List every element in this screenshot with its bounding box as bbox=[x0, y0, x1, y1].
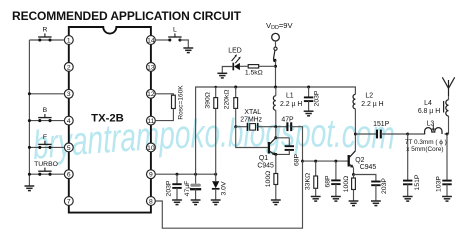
inductor L3 tuned bbox=[425, 125, 442, 134]
label Rosc=160K bbox=[177, 85, 184, 120]
svg-text:68P: 68P bbox=[294, 153, 301, 166]
ground G3 under 203P bbox=[172, 200, 182, 205]
svg-text:6.8 µ H: 6.8 µ H bbox=[418, 108, 440, 115]
svg-text:390Ω: 390Ω bbox=[205, 92, 212, 108]
svg-text:1.5kΩ: 1.5kΩ bbox=[245, 70, 263, 77]
label 103P bbox=[436, 176, 443, 192]
wire pin3 to bus bbox=[28, 92, 65, 95]
capacitor C 47uF electrolytic bbox=[190, 174, 201, 199]
label 1.5kOhm bbox=[245, 70, 263, 77]
inductor L1 bbox=[273, 87, 275, 127]
wire pin8 net bbox=[303, 160, 349, 162]
resistor R 100 Ohm Q1 bbox=[274, 154, 278, 199]
node junction pin8 net left bbox=[301, 160, 304, 163]
svg-text:12: 12 bbox=[147, 91, 155, 98]
label 203P emitter bbox=[381, 178, 388, 194]
resistor Rosc 160K bbox=[172, 95, 176, 108]
node junction bus-390 bbox=[215, 86, 217, 88]
terminal VDD bbox=[272, 33, 280, 41]
svg-text:203P: 203P bbox=[166, 180, 173, 196]
node junction rail-zener bbox=[214, 173, 217, 176]
resistor R 220kOhm bbox=[234, 87, 238, 127]
antenna ANT bbox=[442, 77, 454, 96]
wire osc node down to Q1 base bbox=[236, 127, 268, 148]
svg-text:1: 1 bbox=[67, 37, 71, 44]
label 220kOhm bbox=[223, 90, 230, 110]
svg-text:C945: C945 bbox=[257, 163, 274, 170]
label L3 winding spec line2 bbox=[406, 146, 443, 153]
capacitor C 203P (rail) bbox=[172, 174, 181, 199]
label Q2 C945 bbox=[360, 164, 377, 171]
IC label TX-2B bbox=[91, 113, 124, 125]
IC pin 4 bbox=[64, 116, 73, 125]
IC pin 12 bbox=[147, 89, 156, 98]
svg-text:2.2 µ H: 2.2 µ H bbox=[361, 101, 383, 108]
IC pin 14 bbox=[147, 36, 156, 45]
svg-text:VDD=9V: VDD=9V bbox=[266, 21, 294, 31]
label 47P bbox=[281, 117, 294, 124]
capacitor C 203P (bus) bbox=[304, 87, 313, 111]
ground G12 under 203P emitter bbox=[371, 201, 381, 206]
wire left common bus bbox=[28, 40, 30, 186]
wire LED cathode to ground bbox=[222, 67, 233, 73]
wire switch L to ground bbox=[180, 40, 188, 48]
wire 9V top bus bbox=[196, 87, 356, 174]
ground G6 LED bbox=[217, 73, 227, 78]
label L1 bbox=[286, 92, 294, 99]
wire Rosc to pin11 bbox=[155, 109, 173, 121]
svg-text:9: 9 bbox=[149, 172, 153, 179]
label Q2 bbox=[355, 157, 364, 164]
svg-text:B: B bbox=[43, 107, 48, 114]
wire L3 to antenna column bbox=[444, 133, 448, 135]
capacitor C 151P coupling bbox=[355, 130, 407, 139]
capacitor C 203P emitter bbox=[354, 175, 381, 201]
svg-text:C945: C945 bbox=[360, 164, 377, 171]
resistor R 390 Ohm bbox=[214, 87, 218, 174]
label L2 bbox=[365, 92, 373, 99]
label LED bbox=[228, 47, 241, 54]
IC pin 8 bbox=[147, 197, 156, 206]
IC pin 1 bbox=[64, 36, 73, 45]
wire power switch to LED node bbox=[275, 60, 277, 87]
ground G14 under 103P bbox=[442, 197, 452, 202]
IC pin 5 bbox=[64, 143, 73, 152]
svg-text:2.2 µ H: 2.2 µ H bbox=[280, 101, 302, 108]
svg-text:L1: L1 bbox=[286, 92, 294, 99]
capacitor C 103P bbox=[442, 134, 451, 196]
svg-text:47P: 47P bbox=[281, 117, 294, 124]
svg-text:203P: 203P bbox=[381, 178, 388, 194]
node junction Q2 emitter bbox=[352, 168, 355, 176]
ground G9 under 33K bbox=[311, 197, 321, 202]
svg-text:6: 6 bbox=[67, 172, 71, 179]
transistor Q2 C945 bbox=[349, 151, 356, 168]
IC pin 9 bbox=[147, 170, 156, 179]
label L1 2.2uH bbox=[280, 101, 302, 108]
transistor Q1 C945 bbox=[269, 138, 276, 156]
node junction bus-220k bbox=[234, 86, 237, 89]
node junction collector-68P bbox=[274, 136, 277, 139]
svg-text:151P: 151P bbox=[373, 121, 389, 128]
label 68P feedback bbox=[294, 153, 301, 166]
svg-text:LED: LED bbox=[228, 47, 241, 54]
label Q1 C945 bbox=[257, 163, 274, 170]
svg-text:7: 7 bbox=[67, 198, 71, 205]
inductor L4 bbox=[444, 96, 449, 134]
node junction rail-47uF-bus bbox=[194, 173, 197, 176]
ground G11 Q2 emitter bbox=[349, 201, 359, 206]
IC pin 3 bbox=[64, 89, 73, 98]
node junction Q1 emitter bbox=[274, 153, 277, 156]
svg-text:151P: 151P bbox=[414, 174, 421, 190]
svg-text:R: R bbox=[42, 27, 47, 34]
svg-text:TURBO: TURBO bbox=[34, 161, 58, 168]
ground G2 switch L bbox=[183, 48, 193, 53]
svg-text:13: 13 bbox=[147, 64, 155, 71]
ground G10 under 68P bbox=[331, 197, 341, 202]
svg-text:203P: 203P bbox=[313, 90, 320, 106]
label 151P coupling bbox=[373, 121, 389, 128]
svg-text:47µF: 47µF bbox=[184, 181, 191, 197]
label 151P shunt bbox=[414, 174, 421, 190]
capacitor C 47P bbox=[287, 122, 291, 131]
svg-text:L2: L2 bbox=[365, 92, 373, 99]
capacitor C 68P (base) bbox=[331, 161, 340, 196]
wire pin6 row bbox=[28, 173, 65, 176]
svg-text:3.0V: 3.0V bbox=[220, 181, 227, 195]
switch F bbox=[38, 134, 51, 149]
wire pin12 to Rosc bbox=[155, 94, 173, 95]
ground G8 Q1 emitter bbox=[271, 200, 281, 205]
node junction 68P2 tap bbox=[334, 160, 337, 163]
svg-text:14: 14 bbox=[147, 37, 155, 44]
IC pin 11 bbox=[147, 116, 156, 125]
svg-text:3: 3 bbox=[67, 91, 71, 98]
svg-text:27MHz: 27MHz bbox=[240, 117, 262, 124]
svg-text:XTAL: XTAL bbox=[244, 109, 261, 116]
op IC U1 TX-2B body bbox=[69, 27, 151, 213]
svg-text:33KΩ: 33KΩ bbox=[305, 173, 312, 190]
svg-text:4: 4 bbox=[67, 118, 71, 125]
label 100 Ohm Q1 bbox=[265, 171, 272, 187]
IC pin 10 bbox=[147, 143, 156, 152]
watermark blogspot bbox=[32, 111, 395, 168]
wire pin4 row bbox=[28, 119, 65, 122]
ground G5 under zener bbox=[211, 200, 221, 205]
wire pin9 3V rail bbox=[155, 173, 215, 175]
wire pin1 row bbox=[29, 39, 64, 41]
svg-text:8: 8 bbox=[149, 198, 153, 205]
label L4 6.8uH bbox=[418, 108, 440, 115]
svg-text:7T 0.3mm ( ϕ ): 7T 0.3mm ( ϕ ) bbox=[405, 139, 447, 146]
svg-text:L: L bbox=[173, 27, 177, 34]
svg-text:11: 11 bbox=[147, 118, 154, 125]
node junction osc bbox=[234, 125, 237, 128]
node junction 33k tap bbox=[314, 160, 317, 163]
wire osc node to XTAL bbox=[236, 126, 248, 128]
svg-text:L3: L3 bbox=[427, 121, 435, 128]
ground G7 under 203P bus bbox=[304, 111, 314, 116]
node junction bus-L1-power bbox=[274, 86, 277, 89]
ground G4 under 47uF bbox=[191, 200, 201, 205]
svg-text:F: F bbox=[43, 134, 47, 141]
node junction 151P2 tap bbox=[406, 133, 409, 136]
label L3 winding spec line1 bbox=[405, 139, 447, 146]
svg-text:Q1: Q1 bbox=[259, 155, 268, 162]
svg-text:TX-2B: TX-2B bbox=[91, 113, 124, 125]
svg-text:103P: 103P bbox=[436, 176, 443, 192]
svg-text:68P: 68P bbox=[324, 175, 331, 188]
svg-text:10: 10 bbox=[147, 145, 155, 152]
wire XTAL to N2 bbox=[258, 126, 288, 128]
label 3.0V bbox=[220, 181, 227, 195]
diode zener 3.0V bbox=[212, 174, 220, 199]
svg-text:2: 2 bbox=[67, 64, 71, 71]
wire pin5 row bbox=[28, 146, 65, 149]
capacitor C 151P shunt bbox=[403, 134, 412, 196]
crystal XTAL 27MHz bbox=[248, 123, 258, 131]
resistor R 1.5kOhm bbox=[240, 65, 276, 68]
switch L bbox=[168, 27, 181, 42]
inductor L2 bbox=[353, 94, 355, 150]
label VDD=9V bbox=[266, 21, 294, 31]
node junction bus-203P2 bbox=[307, 86, 310, 89]
switch R bbox=[38, 27, 51, 42]
label 203P bus bbox=[313, 90, 320, 106]
IC pin 2 bbox=[64, 63, 73, 72]
label 68P base bbox=[324, 175, 331, 188]
wire pin14 row bbox=[155, 39, 170, 41]
ground G13 under 151P bbox=[403, 197, 413, 202]
resistor R 33KOhm bbox=[314, 161, 318, 196]
node junction N2 xtal-47P-L1 bbox=[274, 125, 277, 128]
IC pin 6 bbox=[64, 170, 73, 179]
label 100 Ohm Q2 bbox=[343, 176, 350, 192]
label 33KOhm bbox=[305, 173, 312, 190]
node junction 1.5k-power bbox=[274, 65, 277, 68]
switch power SW bbox=[273, 41, 277, 62]
IC pin 7 bbox=[64, 197, 73, 206]
svg-text:RECOMMENDED APPLICATION CIRCUI: RECOMMENDED APPLICATION CIRCUIT bbox=[12, 9, 242, 23]
wire 151P2 to L3 bbox=[408, 133, 426, 135]
svg-text:100Ω: 100Ω bbox=[343, 176, 350, 192]
label 390 Ohm bbox=[205, 92, 212, 108]
LED D1 bbox=[232, 54, 241, 70]
svg-text:5: 5 bbox=[67, 145, 71, 152]
resistor R 100 Ohm Q2 bbox=[352, 175, 356, 201]
wire N2 to Q1 collector bbox=[275, 127, 277, 138]
label L3 bbox=[427, 121, 435, 128]
label Q1 bbox=[259, 155, 268, 162]
svg-text:x 5mm(Core): x 5mm(Core) bbox=[406, 146, 443, 153]
label 27MHz bbox=[240, 117, 262, 124]
wire pin8 to output net bbox=[155, 161, 302, 228]
svg-text:220kΩ: 220kΩ bbox=[223, 90, 230, 110]
label L2 2.2uH bbox=[361, 101, 383, 108]
label 203P bbox=[166, 180, 173, 196]
capacitor C 68P feedback bbox=[276, 138, 294, 155]
node junction 103P tap bbox=[446, 133, 449, 136]
wire 47P to pin8 net bbox=[291, 127, 302, 161]
label XTAL bbox=[244, 109, 261, 116]
ground G1 left bus bbox=[25, 186, 35, 191]
node junction Q2 collector 151P bbox=[354, 133, 357, 136]
svg-text:100Ω: 100Ω bbox=[265, 171, 272, 187]
label L4 bbox=[424, 100, 432, 107]
switch TURBO bbox=[34, 161, 58, 176]
svg-text:Rosc=160K: Rosc=160K bbox=[177, 85, 184, 120]
node junction rail-203P bbox=[176, 173, 179, 176]
svg-text:Q2: Q2 bbox=[355, 157, 364, 164]
switch B bbox=[38, 107, 51, 122]
svg-text:L4: L4 bbox=[424, 100, 432, 107]
label 47uF bbox=[184, 181, 191, 197]
IC pin 13 bbox=[147, 63, 156, 72]
